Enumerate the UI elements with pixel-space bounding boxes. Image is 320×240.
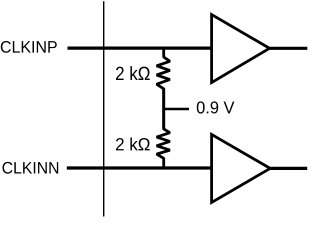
resistor R1 value 2 kΩ bbox=[116, 66, 150, 80]
node CLKINN label bbox=[3, 162, 59, 174]
buffer U2 (bottom) bbox=[212, 134, 271, 202]
wire CLKINP rail bbox=[68, 46, 212, 49]
buffer U1 (top) bbox=[212, 15, 270, 83]
wire U1 output bbox=[270, 47, 308, 50]
resistor R2 value 2 kΩ bbox=[116, 138, 150, 151]
wire CLKINN rail bbox=[67, 166, 212, 169]
wire 0.9V stub bbox=[164, 108, 189, 111]
node 0.9 V label bbox=[197, 101, 235, 113]
wire mid junction vertical bbox=[162, 88, 165, 130]
resistor R1 (top 2k) bbox=[157, 48, 170, 109]
node CLKINP label bbox=[1, 41, 57, 53]
bias line (vertical net) bbox=[103, 1, 105, 216]
wire U2 output bbox=[270, 167, 307, 170]
resistor R2 (bottom 2k) bbox=[157, 109, 170, 168]
